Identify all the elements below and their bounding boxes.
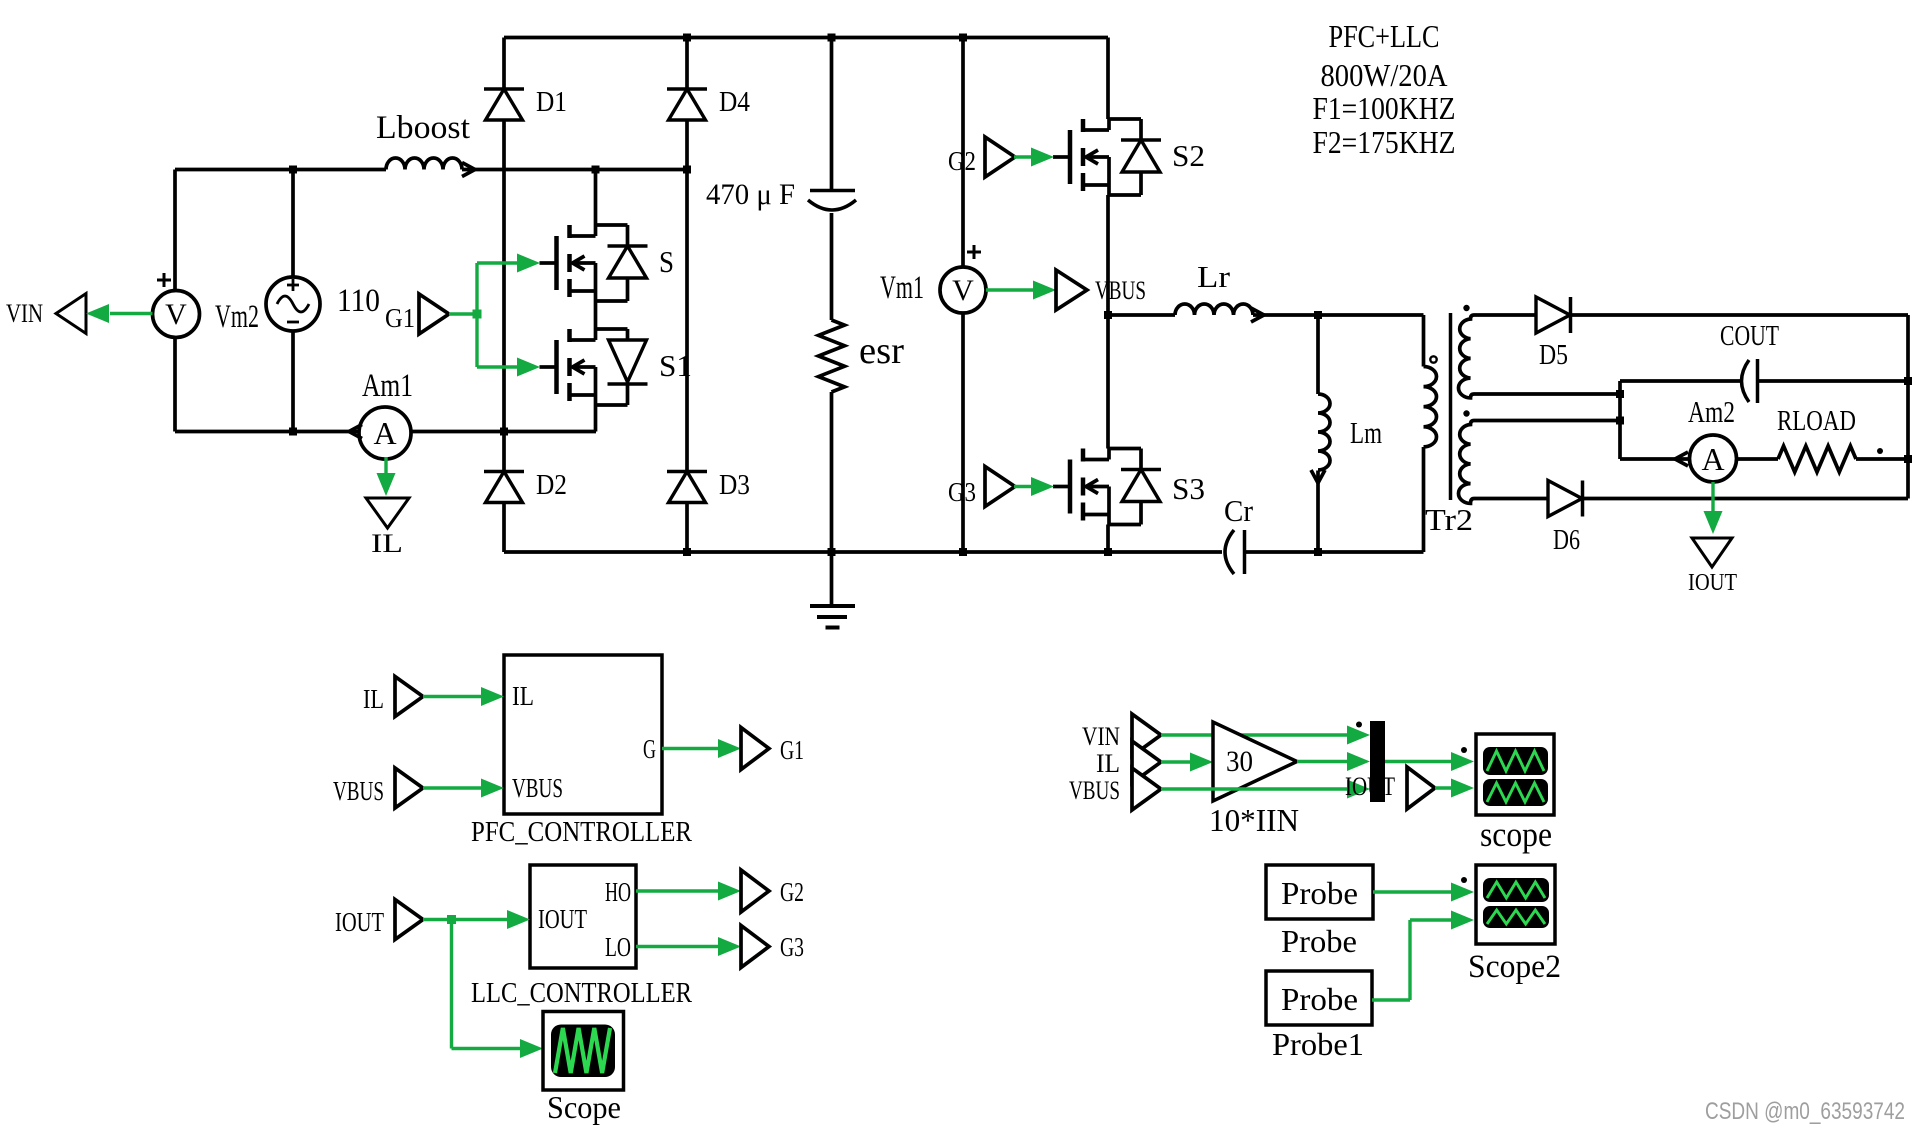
block LLC_CONTROLLER bbox=[530, 865, 636, 968]
node IL source triangle mux bbox=[1132, 741, 1161, 783]
wire Am2 branch left bbox=[1620, 457, 1689, 461]
capacitor COUT bbox=[1742, 360, 1750, 402]
wire D4-D3 bus lower bbox=[685, 503, 689, 552]
scope scope bbox=[1476, 734, 1554, 815]
svg-text:G3: G3 bbox=[948, 477, 976, 507]
svg-text:V: V bbox=[952, 274, 974, 307]
wire S3 source bbox=[1106, 525, 1110, 553]
svg-text:10*IIN: 10*IIN bbox=[1209, 802, 1299, 838]
svg-text:VBUS: VBUS bbox=[1095, 276, 1146, 305]
svg-text:VIN: VIN bbox=[1082, 722, 1120, 751]
transformer Tr2 secondary upper dot bbox=[1463, 305, 1469, 311]
green wire VBUS to PFC bbox=[423, 786, 482, 789]
svg-text:Vm2: Vm2 bbox=[215, 299, 259, 335]
green wire IOUT to Scope bbox=[450, 920, 453, 1049]
wire Vm2 branch bbox=[291, 170, 295, 278]
svg-text:Am1: Am1 bbox=[362, 368, 413, 404]
node IOUT sink triangle bbox=[1692, 538, 1732, 567]
wire bottom rail left bbox=[504, 550, 1222, 554]
svg-text:S1: S1 bbox=[659, 348, 692, 383]
wire top rail bbox=[504, 36, 1108, 40]
junction Am1 wire at D2 bus bbox=[500, 428, 508, 436]
transformer Tr2 primary polarity dot bbox=[1430, 356, 1436, 362]
wire D6 to output bottom bbox=[1583, 497, 1908, 501]
capacitor 470uF bbox=[810, 189, 855, 193]
wire esr bottom bbox=[830, 392, 834, 552]
green junction G1 bbox=[473, 310, 482, 319]
wire boost node horizontal bbox=[175, 168, 386, 172]
wire Vm1 branch bottom bbox=[961, 313, 965, 552]
green wire IL to PFC bbox=[423, 695, 482, 698]
svg-text:Vm1: Vm1 bbox=[880, 270, 924, 306]
node G2 sink triangle bbox=[741, 870, 769, 912]
svg-text:IL: IL bbox=[512, 681, 534, 711]
green wire G3 bbox=[1014, 485, 1032, 488]
svg-text:30: 30 bbox=[1226, 745, 1253, 778]
wire S-S1 link bbox=[594, 301, 598, 329]
diode D2 bbox=[484, 470, 524, 474]
node IOUT source triangle bbox=[395, 900, 423, 940]
wire Lm bottom bbox=[1316, 471, 1320, 553]
wire input loop left bbox=[173, 170, 177, 291]
block PFC_CONTROLLER bbox=[504, 655, 662, 814]
wire Lm top bbox=[1316, 315, 1320, 394]
junction bottom rail at Vm1 bbox=[959, 548, 967, 556]
svg-text:Scope: Scope bbox=[547, 1089, 621, 1125]
svg-text:IL: IL bbox=[363, 684, 384, 714]
svg-text:IOUT: IOUT bbox=[1688, 570, 1737, 596]
svg-text:G2: G2 bbox=[780, 877, 804, 907]
svg-text:A: A bbox=[1701, 441, 1724, 477]
green wire VIN to mux bbox=[1161, 733, 1350, 736]
svg-text:RLOAD: RLOAD bbox=[1777, 406, 1856, 437]
svg-text:110: 110 bbox=[337, 283, 380, 319]
wire Am2 to RLOAD bbox=[1737, 457, 1779, 461]
junction centre tap lower bbox=[1616, 417, 1624, 425]
svg-text:IL: IL bbox=[371, 529, 403, 558]
wire D1-D2 bus middle bbox=[502, 120, 506, 472]
svg-text:Probe: Probe bbox=[1281, 923, 1357, 959]
green wire Vm1 to VBUS bbox=[986, 288, 1034, 291]
wire bottom rail right bbox=[1246, 550, 1424, 554]
green junction IOUT bbox=[447, 915, 456, 924]
svg-text:Lboost: Lboost bbox=[376, 110, 470, 146]
svg-text:D1: D1 bbox=[536, 87, 567, 118]
green wire gain to mux bbox=[1297, 760, 1350, 763]
svg-text:esr: esr bbox=[859, 330, 904, 372]
diode D6 bbox=[1548, 481, 1582, 517]
green arrow Am2 to IOUT bbox=[1711, 482, 1714, 512]
svg-text:IL: IL bbox=[1096, 749, 1120, 778]
inductor Lboost bbox=[386, 158, 462, 170]
wire COUT branch right bbox=[1758, 379, 1908, 383]
wire output right side bbox=[1906, 315, 1910, 499]
junction output right upper bbox=[1904, 377, 1912, 385]
svg-text:scope: scope bbox=[1480, 815, 1552, 854]
mux bar bbox=[1370, 721, 1385, 802]
junction bottom rail at D3 bbox=[683, 548, 691, 556]
junction centre tap upper bbox=[1616, 390, 1624, 398]
wire S2 drain bbox=[1106, 38, 1110, 120]
mosfet S3 bbox=[1053, 485, 1069, 489]
green wire Vm2 to VIN bbox=[110, 312, 153, 315]
diode D5 bbox=[1536, 297, 1570, 333]
green wire IL to gain bbox=[1161, 760, 1193, 763]
wire cap-esr link bbox=[830, 213, 834, 320]
node G2 source triangle bbox=[985, 137, 1015, 177]
voltmeter Vm1 bbox=[940, 267, 986, 313]
plus mark Vm1 bbox=[967, 251, 981, 254]
inductor Lm bbox=[1318, 394, 1330, 470]
arrow into Am2 bbox=[1675, 452, 1688, 466]
svg-text:LO: LO bbox=[605, 932, 631, 962]
transformer Tr2 core bbox=[1449, 313, 1453, 500]
node VBUS source triangle bbox=[395, 768, 423, 808]
capacitor Cr bbox=[1225, 530, 1234, 574]
ground bbox=[830, 552, 834, 606]
svg-text:Probe1: Probe1 bbox=[1272, 1026, 1364, 1062]
junction output right lower bbox=[1904, 455, 1912, 463]
wire D4-D3 bus upper bbox=[685, 38, 689, 90]
node VIN source triangle bbox=[1132, 714, 1161, 756]
wire S3 drain bbox=[1106, 315, 1110, 449]
junction boost node at S drain bbox=[592, 166, 600, 174]
wire RLOAD to right bbox=[1856, 457, 1908, 461]
junction top rail at D4 bbox=[683, 34, 691, 42]
wire cap branch top bbox=[830, 38, 834, 191]
svg-text:PFC_CONTROLLER: PFC_CONTROLLER bbox=[471, 816, 693, 848]
svg-text:VBUS: VBUS bbox=[512, 773, 563, 803]
svg-text:Cr: Cr bbox=[1224, 493, 1254, 528]
svg-text:D2: D2 bbox=[536, 470, 567, 501]
polarity dot RLOAD bbox=[1877, 448, 1883, 454]
svg-text:VBUS: VBUS bbox=[333, 776, 384, 806]
junction top rail at cap bbox=[828, 34, 836, 42]
green wire IOUT to LLC bbox=[423, 918, 508, 921]
inductor Lr bbox=[1175, 304, 1253, 315]
wire D5 to output top bbox=[1571, 313, 1908, 317]
svg-text:F1=100KHZ: F1=100KHZ bbox=[1313, 90, 1456, 126]
wire S1 source bbox=[594, 405, 598, 432]
wire transformer primary bottom bbox=[1422, 447, 1426, 552]
ac source 110V bbox=[266, 277, 320, 331]
svg-text:Lr: Lr bbox=[1197, 259, 1231, 294]
diode D3 bbox=[667, 470, 707, 474]
svg-text:G1: G1 bbox=[780, 735, 804, 765]
scope Scope bbox=[543, 1012, 624, 1091]
green wire Probe to Scope2 bbox=[1373, 890, 1454, 893]
svg-text:S3: S3 bbox=[1172, 471, 1205, 506]
junction Vm2 top bbox=[289, 166, 297, 174]
svg-text:IOUT: IOUT bbox=[335, 907, 384, 937]
junction VBUS node bbox=[1104, 311, 1112, 319]
wire Lr to transformer bbox=[1253, 313, 1424, 317]
wire S2 source to VBUS node bbox=[1106, 195, 1110, 315]
transformer Tr2 secondary lower winding bbox=[1459, 421, 1621, 504]
green wire G1 to gates bbox=[449, 312, 477, 315]
svg-text:Scope2: Scope2 bbox=[1468, 949, 1561, 985]
node IOUT source buffer bbox=[1407, 767, 1435, 809]
wire S drain bbox=[594, 170, 598, 226]
svg-text:Lm: Lm bbox=[1350, 415, 1382, 450]
node G3 source triangle bbox=[985, 467, 1015, 507]
junction Lm bottom bbox=[1314, 548, 1322, 556]
mosfet S bbox=[540, 261, 556, 265]
gain block 30 bbox=[1213, 722, 1297, 801]
svg-text:S2: S2 bbox=[1172, 138, 1205, 173]
wire VBUS to Lr bbox=[1108, 313, 1175, 317]
wire D1-D2 bus upper bbox=[502, 38, 506, 90]
wire COUT branch left bbox=[1620, 379, 1740, 383]
resistor RLOAD bbox=[1778, 446, 1856, 472]
svg-text:D4: D4 bbox=[719, 87, 750, 118]
junction bottom rail at S3 bbox=[1104, 548, 1112, 556]
green wire HO to G2 bbox=[636, 889, 719, 892]
svg-text:Probe: Probe bbox=[1281, 981, 1358, 1017]
node IL source triangle bbox=[395, 677, 423, 717]
svg-text:LLC_CONTROLLER: LLC_CONTROLLER bbox=[471, 977, 693, 1009]
mosfet S2 bbox=[1053, 155, 1069, 159]
polarity dot scope bbox=[1461, 747, 1467, 753]
node VIN sink triangle bbox=[56, 294, 86, 334]
svg-text:V: V bbox=[165, 298, 187, 331]
svg-text:CSDN @m0_63593742: CSDN @m0_63593742 bbox=[1705, 1098, 1905, 1125]
svg-text:Tr2: Tr2 bbox=[1425, 502, 1473, 537]
svg-text:470 μ F: 470 μ F bbox=[706, 178, 795, 211]
node VBUS sink triangle bbox=[1056, 270, 1087, 310]
ammeter Am2 bbox=[1690, 435, 1737, 482]
green wire VBUS to mux bbox=[1161, 787, 1350, 790]
mosfet S1 bbox=[540, 365, 556, 369]
svg-text:Probe: Probe bbox=[1281, 875, 1358, 911]
junction boost node at D4 bus bbox=[683, 166, 691, 174]
green wire mux to scope bbox=[1385, 760, 1454, 763]
node G3 sink triangle bbox=[741, 926, 769, 968]
wire Vm1 branch top bbox=[961, 38, 965, 268]
green wire Probe1 to Scope2 bbox=[1372, 998, 1410, 1001]
svg-text:G2: G2 bbox=[948, 146, 976, 176]
node G1 source triangle bbox=[419, 294, 449, 334]
wire D1-D2 bus lower bbox=[502, 503, 506, 552]
svg-text:PFC+LLC: PFC+LLC bbox=[1329, 18, 1440, 54]
transformer Tr2 primary winding bbox=[1424, 367, 1437, 447]
svg-text:HO: HO bbox=[605, 877, 631, 907]
svg-text:D3: D3 bbox=[719, 470, 750, 501]
block Probe1 bbox=[1266, 971, 1372, 1025]
block Probe bbox=[1266, 865, 1373, 919]
diode D4 bbox=[667, 87, 707, 91]
polarity dot mux bbox=[1356, 722, 1362, 728]
svg-text:IOUT: IOUT bbox=[538, 904, 587, 934]
svg-text:COUT: COUT bbox=[1720, 321, 1779, 352]
svg-text:G: G bbox=[643, 734, 656, 764]
node VBUS source triangle mux bbox=[1132, 768, 1161, 810]
resistor esr bbox=[819, 320, 845, 392]
svg-text:D5: D5 bbox=[1539, 340, 1568, 371]
svg-text:F2=175KHZ: F2=175KHZ bbox=[1313, 124, 1456, 160]
svg-text:A: A bbox=[373, 415, 396, 451]
svg-text:S: S bbox=[659, 244, 674, 279]
junction top rail at Vm1 bbox=[959, 34, 967, 42]
node IL sink triangle bbox=[366, 498, 409, 528]
wire D4-D3 bus middle bbox=[685, 120, 689, 472]
plus mark Vm2 bbox=[157, 279, 171, 282]
junction bottom rail at cap bbox=[828, 548, 836, 556]
svg-text:G1: G1 bbox=[385, 303, 415, 333]
green wire G to G1 bbox=[662, 747, 719, 750]
svg-text:G3: G3 bbox=[780, 932, 804, 962]
svg-text:D6: D6 bbox=[1553, 525, 1580, 556]
green wire G2 bbox=[1014, 155, 1032, 158]
wire centre tap vertical bbox=[1618, 381, 1622, 459]
ammeter Am1 bbox=[359, 407, 411, 459]
wire transformer primary top bbox=[1422, 315, 1426, 367]
wire input loop bottom bbox=[175, 430, 361, 434]
junction Vm2 bottom bbox=[289, 428, 297, 436]
polarity dot Scope2 bbox=[1461, 877, 1467, 883]
arrow into Am1 bbox=[349, 425, 362, 439]
voltmeter Vm2 bbox=[153, 291, 200, 338]
svg-text:800W/20A: 800W/20A bbox=[1321, 57, 1448, 93]
svg-text:VBUS: VBUS bbox=[1069, 776, 1120, 805]
junction Lr-Lm node bbox=[1314, 311, 1322, 319]
green wire IOUT buffer to scope bbox=[1435, 786, 1454, 789]
scope Scope2 bbox=[1476, 865, 1555, 944]
diode D1 bbox=[484, 87, 524, 91]
svg-text:Am2: Am2 bbox=[1688, 394, 1735, 429]
node G1 sink triangle bbox=[741, 728, 769, 770]
svg-text:VIN: VIN bbox=[6, 299, 43, 328]
green arrow Am1 to IL bbox=[384, 457, 387, 474]
green wire LO to G3 bbox=[636, 945, 719, 948]
transformer Tr2 secondary upper winding bbox=[1459, 315, 1621, 398]
transformer Tr2 secondary lower dot bbox=[1463, 410, 1469, 416]
